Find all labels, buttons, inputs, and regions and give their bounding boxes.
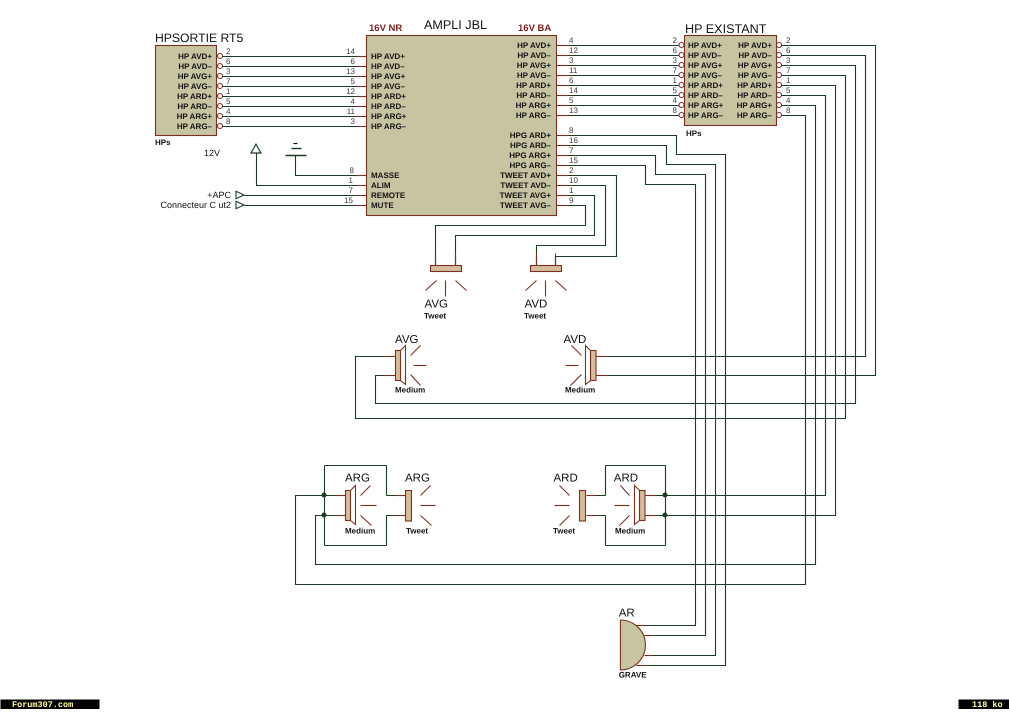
- svg-text:3: 3: [351, 117, 356, 126]
- wire AMPLI pin 6 to HP EXISTANT pin 1: [568, 76, 679, 86]
- svg-text:14: 14: [346, 47, 355, 56]
- wire AMPLI TWEET AVG- pin 9 to AVG tweeter: [436, 196, 586, 266]
- power symbol 12V: [204, 144, 261, 158]
- svg-text:HP ARG+: HP ARG+: [516, 101, 552, 110]
- svg-text:5: 5: [226, 97, 231, 106]
- wire HP EXISTANT pin 3 to AVG medium -: [376, 56, 856, 404]
- svg-text:3: 3: [569, 56, 574, 65]
- junction node ARD A: [663, 493, 668, 498]
- svg-text:11: 11: [569, 66, 578, 75]
- svg-text:Connecteur C ut2: Connecteur C ut2: [160, 200, 231, 210]
- svg-text:2: 2: [673, 36, 678, 45]
- wire AMPLI TWEET AVD- pin 10 to AVD tweeter: [537, 176, 606, 266]
- svg-text:3: 3: [226, 67, 231, 76]
- svg-text:REMOTE: REMOTE: [371, 191, 406, 200]
- wire HP EXISTANT pin 8 to ARG node A: [296, 106, 806, 585]
- svg-text:HP AVG+: HP AVG+: [178, 72, 213, 81]
- svg-text:7: 7: [673, 66, 678, 75]
- svg-text:HP ARD–: HP ARD–: [737, 91, 772, 100]
- svg-text:HP AVD+: HP AVD+: [371, 52, 405, 61]
- svg-text:HP ARG+: HP ARG+: [737, 101, 773, 110]
- AMPLI left pin names: [371, 52, 407, 210]
- svg-text:5: 5: [673, 86, 678, 95]
- input terminal +APC: [207, 190, 244, 200]
- svg-text:Medium: Medium: [395, 386, 425, 395]
- svg-text:2: 2: [226, 47, 231, 56]
- wire HPSORTIE pin 4 to AMPLI pin 11: [223, 107, 367, 117]
- svg-text:HP ARD+: HP ARD+: [688, 81, 723, 90]
- svg-text:7: 7: [226, 77, 231, 86]
- tweeter AVG: [424, 254, 467, 321]
- tweeter AVD: [524, 254, 567, 321]
- svg-text:5: 5: [569, 96, 574, 105]
- woofer AR GRAVE: [619, 608, 648, 680]
- svg-text:4: 4: [786, 96, 791, 105]
- svg-text:MASSE: MASSE: [371, 171, 400, 180]
- svg-text:Forum307.com: Forum307.com: [12, 700, 73, 709]
- svg-text:Tweet: Tweet: [553, 527, 575, 536]
- wire HP EXISTANT pin 6 to AVD medium +: [597, 46, 866, 357]
- svg-text:HP ARG+: HP ARG+: [688, 101, 724, 110]
- wire AMPLI HPG ARG+ pin 7 to AR woofer: [568, 146, 706, 636]
- wire AMPLI HPG ARD+ pin 8 to AR woofer: [568, 126, 726, 666]
- svg-text:HP AVD–: HP AVD–: [738, 51, 772, 60]
- svg-text:4: 4: [351, 97, 356, 106]
- svg-text:HP ARG–: HP ARG–: [371, 122, 407, 131]
- svg-text:HP AVG–: HP AVG–: [517, 71, 552, 80]
- svg-text:TWEET AVD+: TWEET AVD+: [500, 171, 551, 180]
- svg-text:4: 4: [226, 107, 231, 116]
- wire AMPLI HPG ARD- pin 16 to AR woofer: [568, 136, 716, 656]
- svg-text:HPs: HPs: [155, 138, 171, 147]
- svg-text:3: 3: [786, 56, 791, 65]
- wire AMPLI TWEET AVG+ pin 1 to AVG tweeter: [456, 186, 595, 266]
- svg-text:HPs: HPs: [686, 129, 702, 138]
- connector HP EXISTANT: [679, 22, 782, 138]
- svg-text:HP ARG–: HP ARG–: [177, 122, 213, 131]
- svg-text:11: 11: [347, 107, 356, 116]
- svg-text:2: 2: [569, 166, 574, 175]
- svg-text:8: 8: [226, 117, 231, 126]
- wire loop ARG enclosure: [325, 466, 406, 546]
- svg-text:HP AVG+: HP AVG+: [738, 61, 773, 70]
- svg-text:HP ARG+: HP ARG+: [371, 112, 407, 121]
- wire AMPLI pin 3 to HP EXISTANT pin 3: [568, 56, 679, 66]
- wire loop ARD enclosure: [587, 466, 666, 546]
- svg-text:ARG: ARG: [405, 473, 430, 485]
- wire AMPLI pin 4 to HP EXISTANT pin 2: [568, 36, 679, 46]
- svg-text:HPG ARG–: HPG ARG–: [510, 161, 552, 170]
- svg-text:HP AVG–: HP AVG–: [738, 71, 773, 80]
- speaker AVG medium: [395, 334, 427, 395]
- wire HP EXISTANT pin 1 to ARD node B: [666, 76, 836, 516]
- svg-text:1: 1: [786, 76, 791, 85]
- svg-text:12V: 12V: [204, 148, 220, 158]
- svg-text:6: 6: [786, 46, 791, 55]
- AMPLI right pin stubs: [557, 46, 568, 206]
- svg-text:HP AVG+: HP AVG+: [517, 61, 552, 70]
- wire AMPLI pin 5 to HP EXISTANT pin 4: [568, 96, 679, 106]
- label 16V NR: [369, 23, 402, 34]
- svg-text:3: 3: [673, 56, 678, 65]
- svg-text:7: 7: [786, 66, 791, 75]
- wire battery to AMPLI MASSE pin 8: [296, 156, 367, 176]
- svg-text:HP ARD+: HP ARD+: [516, 81, 551, 90]
- svg-text:ARG: ARG: [345, 473, 370, 485]
- svg-text:13: 13: [569, 106, 578, 115]
- svg-text:6: 6: [226, 57, 231, 66]
- svg-text:8: 8: [786, 106, 791, 115]
- wire HPSORTIE pin 3 to AMPLI pin 13: [223, 67, 367, 77]
- svg-text:16: 16: [569, 136, 578, 145]
- svg-text:HP AVD+: HP AVD+: [738, 41, 772, 50]
- svg-text:AVD: AVD: [525, 299, 548, 311]
- svg-text:HP ARG+: HP ARG+: [177, 112, 213, 121]
- wire HP EXISTANT pin 4 to ARG node B: [316, 96, 816, 565]
- svg-text:1: 1: [673, 76, 678, 85]
- wire AMPLI pin 13 to HP EXISTANT pin 8: [568, 106, 679, 116]
- svg-text:10: 10: [569, 176, 578, 185]
- svg-text:9: 9: [569, 196, 574, 205]
- svg-text:HPG ARG+: HPG ARG+: [509, 151, 551, 160]
- wire HPSORTIE pin 2 to AMPLI pin 14: [223, 47, 367, 57]
- label 16V BA: [518, 23, 551, 34]
- svg-text:14: 14: [569, 86, 578, 95]
- svg-text:4: 4: [673, 96, 678, 105]
- svg-text:1: 1: [349, 176, 354, 185]
- svg-text:6: 6: [351, 57, 356, 66]
- svg-text:HP ARD–: HP ARD–: [688, 91, 723, 100]
- svg-text:ARD: ARD: [554, 473, 578, 485]
- svg-text:HP AVG–: HP AVG–: [688, 71, 723, 80]
- svg-text:7: 7: [569, 146, 574, 155]
- svg-text:118 ko: 118 ko: [972, 700, 1003, 709]
- svg-text:Medium: Medium: [615, 527, 645, 536]
- connector HPSORTIE RT5: [155, 31, 243, 147]
- wire HPSORTIE pin 1 to AMPLI pin 12: [223, 87, 367, 97]
- wire HPSORTIE pin 8 to AMPLI pin 3: [223, 117, 367, 127]
- svg-text:MUTE: MUTE: [371, 201, 394, 210]
- svg-text:ARD: ARD: [614, 473, 638, 485]
- amplifier block AMPLI JBL: [367, 18, 557, 216]
- wire HPSORTIE pin 5 to AMPLI pin 4: [223, 97, 367, 107]
- speaker ARD medium: [614, 473, 645, 536]
- wire AMPLI TWEET AVD+ pin 2 to AVD tweeter: [556, 166, 617, 266]
- svg-text:HP AVD+: HP AVD+: [517, 41, 551, 50]
- svg-text:HP AVD–: HP AVD–: [688, 51, 722, 60]
- svg-text:5: 5: [786, 86, 791, 95]
- svg-text:HP AVD–: HP AVD–: [517, 51, 551, 60]
- svg-text:HP ARD+: HP ARD+: [371, 92, 406, 101]
- wire HP EXISTANT pin 7 to AVG medium +: [356, 66, 846, 419]
- svg-text:8: 8: [569, 126, 574, 135]
- svg-text:HP ARD–: HP ARD–: [371, 102, 406, 111]
- svg-text:AVG: AVG: [395, 334, 418, 346]
- svg-text:TWEET AVG–: TWEET AVG–: [500, 201, 552, 210]
- svg-text:GRAVE: GRAVE: [619, 671, 648, 680]
- svg-text:2: 2: [786, 36, 791, 45]
- svg-text:HP ARG–: HP ARG–: [737, 111, 773, 120]
- svg-text:HP ARD+: HP ARD+: [177, 92, 212, 101]
- size bar 118 ko: [959, 700, 1009, 711]
- wire 12V to AMPLI ALIM pin 1: [257, 154, 367, 186]
- svg-text:8: 8: [673, 106, 678, 115]
- wire AMPLI pin 12 to HP EXISTANT pin 6: [568, 46, 679, 56]
- svg-text:5: 5: [351, 77, 356, 86]
- battery symbol masse: [286, 144, 307, 156]
- svg-text:AVG: AVG: [425, 299, 448, 311]
- wire +APC to AMPLI REMOTE pin 7: [245, 186, 367, 196]
- svg-text:HP AVD+: HP AVD+: [178, 52, 212, 61]
- svg-text:16V BA: 16V BA: [518, 23, 551, 34]
- svg-text:HP ARD–: HP ARD–: [177, 102, 212, 111]
- svg-text:AVD: AVD: [564, 334, 587, 346]
- svg-text:12: 12: [346, 87, 355, 96]
- junction node ARG A: [322, 493, 327, 498]
- svg-text:HP ARG–: HP ARG–: [688, 111, 724, 120]
- tweeter ARG: [405, 473, 436, 536]
- svg-text:13: 13: [346, 67, 355, 76]
- svg-text:8: 8: [350, 166, 355, 175]
- wire HP EXISTANT pin 5 to ARD node A: [666, 86, 826, 496]
- svg-text:Tweet: Tweet: [406, 527, 428, 536]
- wire HPSORTIE pin 7 to AMPLI pin 5: [223, 77, 367, 87]
- input terminal Connecteur C ut2: [160, 200, 244, 210]
- svg-text:16V NR: 16V NR: [369, 23, 402, 34]
- svg-text:HP ARD–: HP ARD–: [516, 91, 551, 100]
- svg-text:HPG ARD–: HPG ARD–: [510, 141, 552, 150]
- watermark bar Forum307.com: [1, 700, 100, 711]
- svg-text:7: 7: [349, 186, 354, 195]
- svg-text:12: 12: [569, 46, 578, 55]
- wire AMPLI pin 14 to HP EXISTANT pin 5: [568, 86, 679, 96]
- svg-text:HP ARG–: HP ARG–: [516, 111, 552, 120]
- svg-text:ALIM: ALIM: [371, 181, 391, 190]
- wire HP EXISTANT pin 2 to AVD medium -: [597, 36, 876, 376]
- svg-text:6: 6: [569, 76, 574, 85]
- svg-text:1: 1: [569, 186, 574, 195]
- svg-text:4: 4: [569, 36, 574, 45]
- tweeter ARD: [553, 473, 586, 536]
- svg-text:HP AVG+: HP AVG+: [688, 61, 723, 70]
- speaker AVD medium: [564, 334, 597, 395]
- svg-text:HP AVD+: HP AVD+: [688, 41, 722, 50]
- svg-text:15: 15: [344, 196, 353, 205]
- wire AMPLI HPG ARG- pin 15 to AR woofer: [568, 156, 696, 626]
- svg-text:1: 1: [226, 87, 231, 96]
- svg-text:15: 15: [569, 156, 578, 165]
- svg-text:+APC: +APC: [207, 190, 231, 200]
- svg-text:TWEET AVG+: TWEET AVG+: [500, 191, 552, 200]
- svg-text:TWEET AVD–: TWEET AVD–: [500, 181, 551, 190]
- junction node ARD B: [663, 513, 668, 518]
- svg-text:AMPLI JBL: AMPLI JBL: [424, 18, 487, 32]
- svg-text:Medium: Medium: [345, 527, 375, 536]
- svg-text:HP AVD–: HP AVD–: [371, 62, 405, 71]
- svg-text:AR: AR: [619, 608, 635, 620]
- svg-text:HP ARD+: HP ARD+: [737, 81, 772, 90]
- svg-text:HP EXISTANT: HP EXISTANT: [685, 22, 767, 36]
- svg-text:Tweet: Tweet: [424, 312, 446, 321]
- svg-text:HP AVG–: HP AVG–: [178, 82, 213, 91]
- wire Connecteur to AMPLI MUTE pin 15: [245, 196, 367, 206]
- wire AMPLI pin 11 to HP EXISTANT pin 7: [568, 66, 679, 76]
- svg-text:Tweet: Tweet: [524, 312, 546, 321]
- svg-text:HPSORTIE RT5: HPSORTIE RT5: [155, 31, 243, 45]
- svg-text:HP AVD–: HP AVD–: [178, 62, 212, 71]
- AMPLI right pin names: [500, 41, 552, 210]
- svg-text:HPG ARD+: HPG ARD+: [510, 131, 552, 140]
- wire HPSORTIE pin 6 to AMPLI pin 6: [223, 57, 367, 67]
- svg-text:Medium: Medium: [565, 386, 595, 395]
- svg-text:HP AVG+: HP AVG+: [371, 72, 406, 81]
- speaker ARG medium: [345, 473, 377, 536]
- svg-text:6: 6: [673, 46, 678, 55]
- svg-text:HP AVG–: HP AVG–: [371, 82, 406, 91]
- junction node ARG B: [322, 513, 327, 518]
